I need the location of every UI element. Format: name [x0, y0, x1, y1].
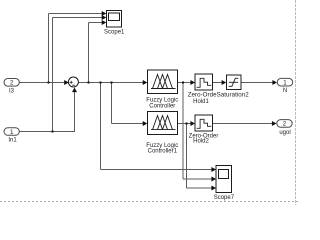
svg-text:Scope7: Scope7	[214, 195, 235, 201]
svg-text:2: 2	[10, 80, 14, 87]
svg-text:Hold1: Hold1	[193, 99, 209, 105]
svg-text:1: 1	[10, 129, 14, 136]
svg-text:Hold2: Hold2	[193, 139, 209, 145]
svg-text:2: 2	[283, 121, 287, 128]
svg-text:Controller1: Controller1	[148, 148, 178, 154]
svg-text:Zero-OrdeSaturation2: Zero-OrdeSaturation2	[188, 91, 250, 98]
svg-text:I3: I3	[9, 88, 15, 94]
svg-text:ugol: ugol	[279, 130, 290, 136]
svg-text:In1: In1	[8, 138, 17, 144]
svg-text:N: N	[283, 88, 287, 94]
svg-text:Scope1: Scope1	[104, 29, 125, 35]
svg-text:1: 1	[283, 80, 287, 87]
svg-text:Controller: Controller	[149, 103, 175, 109]
